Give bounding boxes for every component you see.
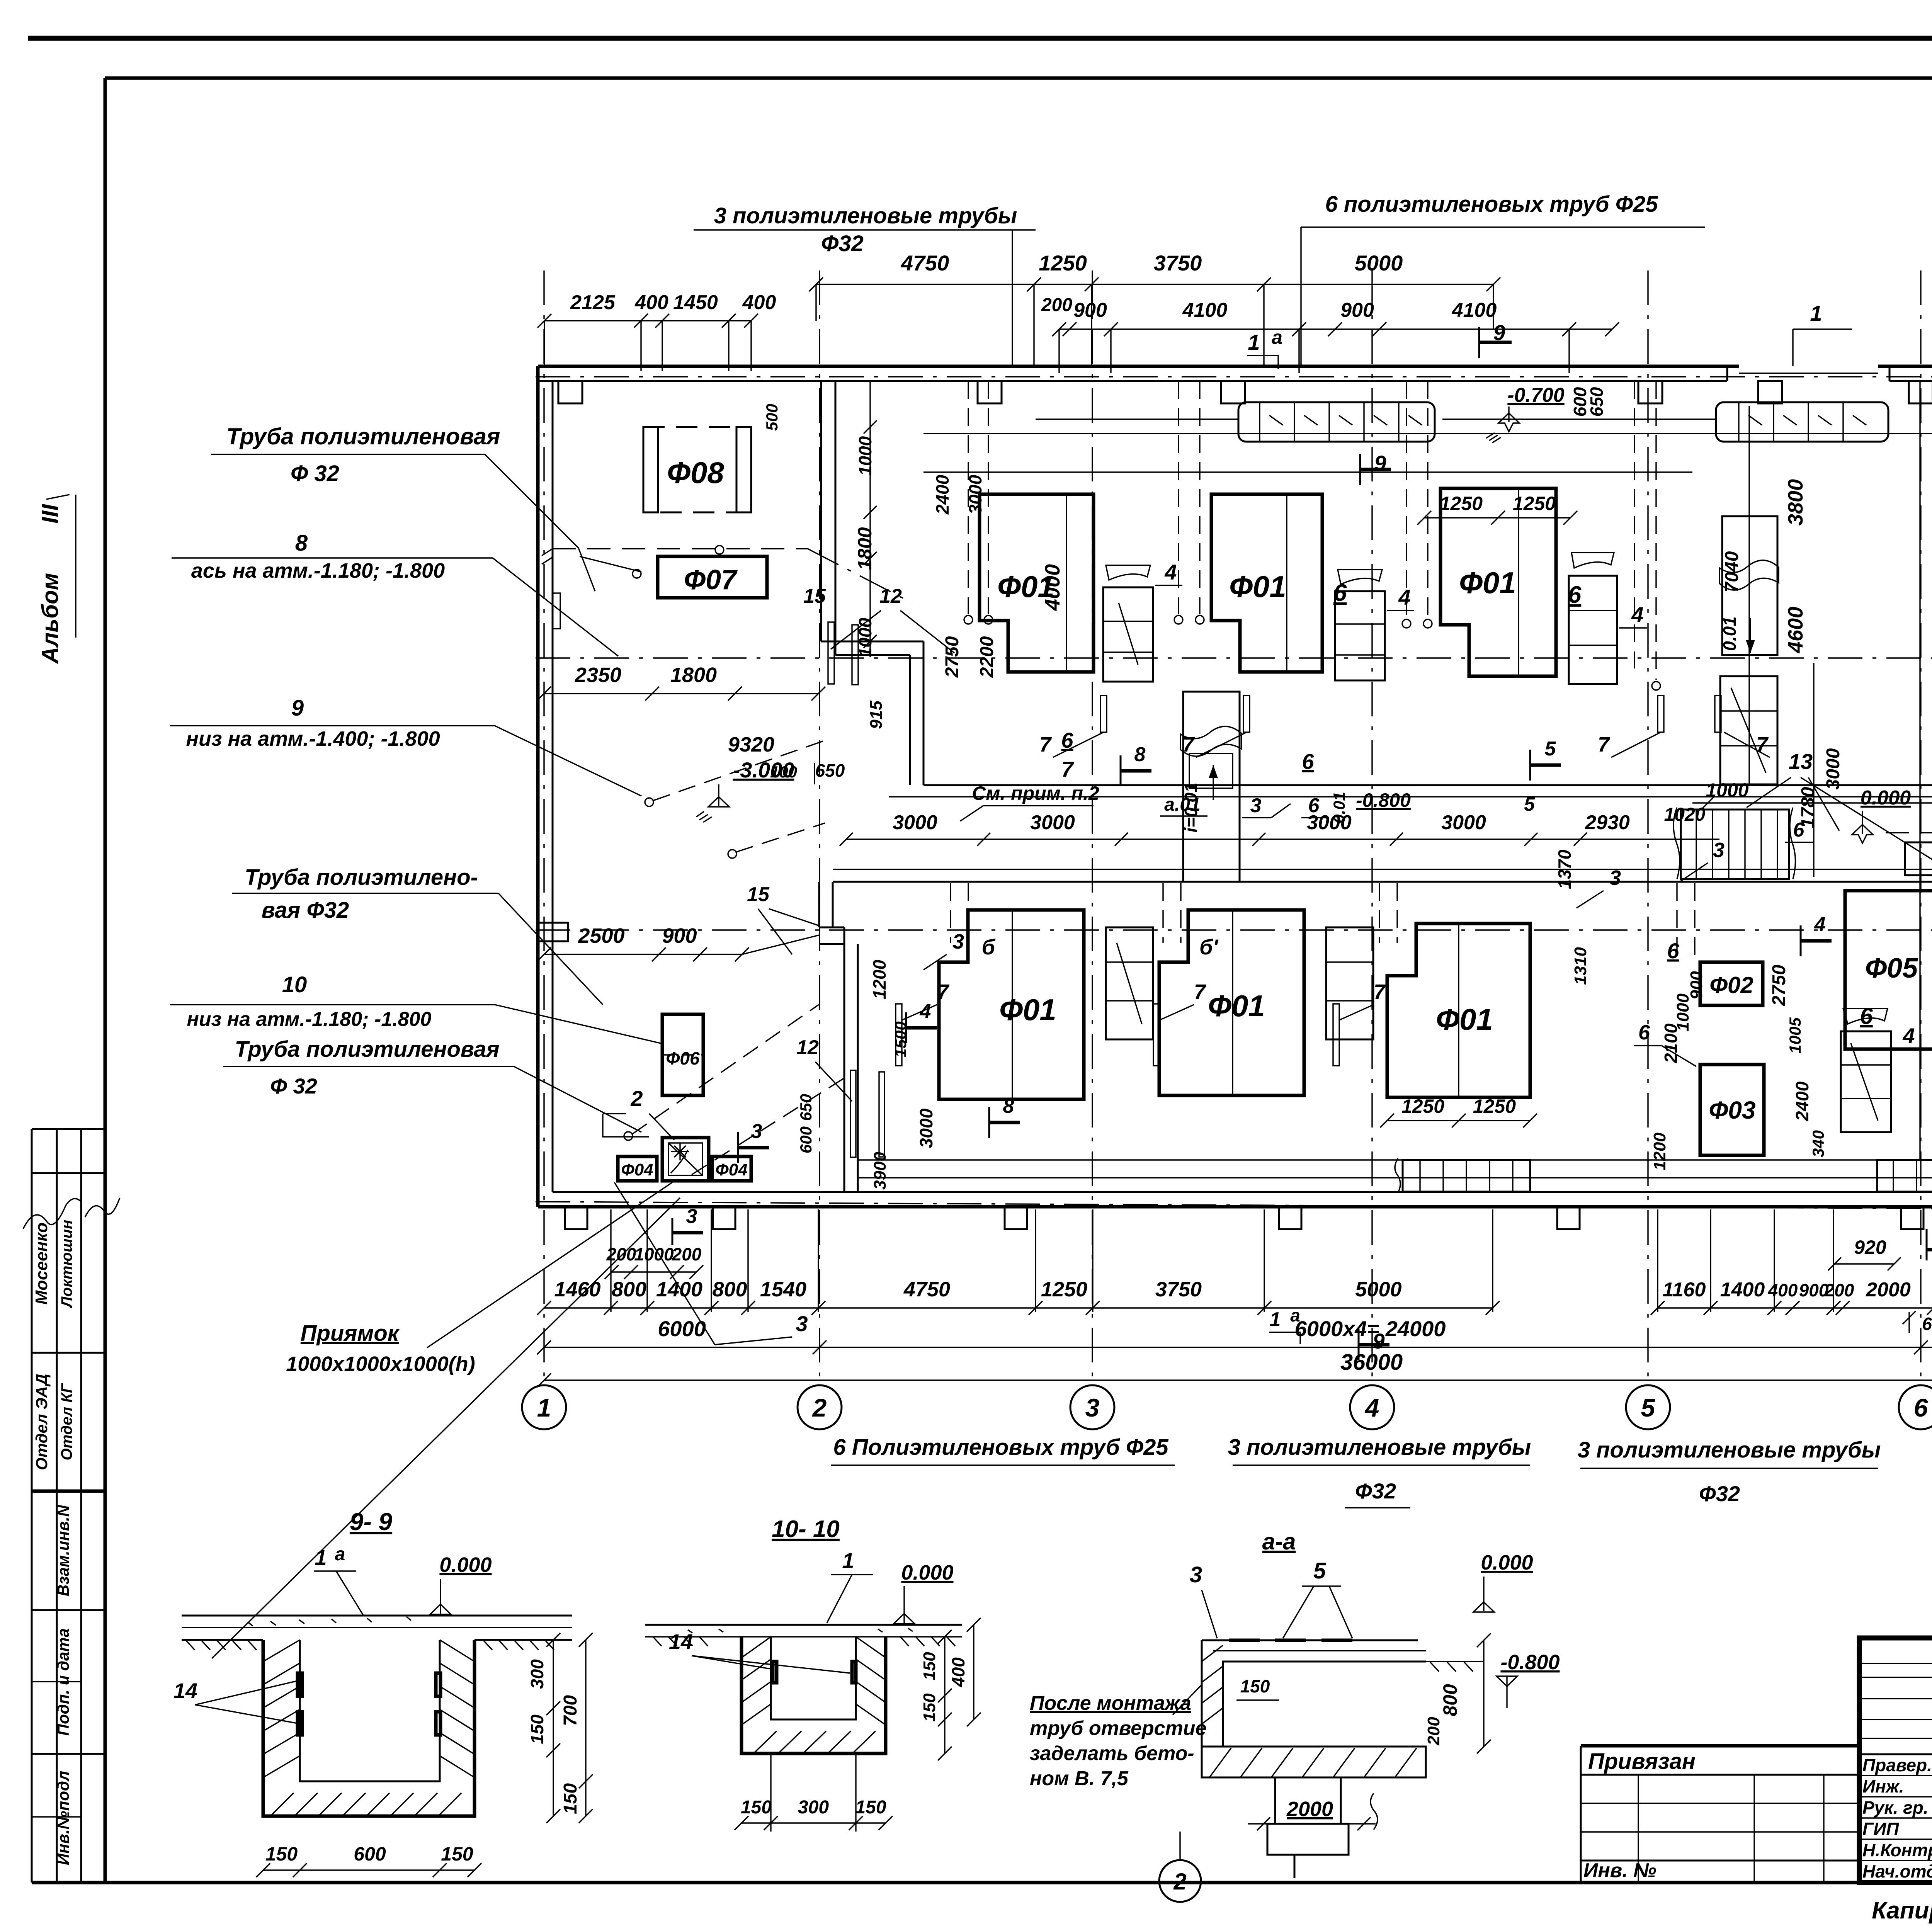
svg-text:2400: 2400 bbox=[1792, 1081, 1812, 1121]
svg-text:2: 2 bbox=[812, 1393, 827, 1422]
horizontal axis В bbox=[536, 657, 1932, 658]
stairs F bbox=[1326, 927, 1373, 1039]
svg-text:600: 600 bbox=[797, 1126, 815, 1153]
svg-text:1250: 1250 bbox=[1473, 1095, 1516, 1117]
interior wall L2 lower vertical bbox=[844, 927, 845, 1192]
svg-text:800: 800 bbox=[712, 1278, 747, 1301]
svg-text:2350: 2350 bbox=[575, 663, 621, 687]
central canal bbox=[923, 784, 1932, 786]
svg-text:Ф32: Ф32 bbox=[1699, 1481, 1740, 1506]
top dim row 2 right bbox=[1059, 328, 1612, 330]
section a-a body bbox=[1202, 1639, 1418, 1641]
svg-text:3 полиэтиленовые трубы: 3 полиэтиленовые трубы bbox=[714, 203, 1017, 228]
svg-text:Ф01: Ф01 bbox=[1459, 566, 1516, 600]
svg-text:900: 900 bbox=[662, 924, 697, 947]
svg-text:6а: 6а bbox=[1922, 1314, 1932, 1334]
svg-text:14: 14 bbox=[669, 1629, 693, 1654]
svg-text:0.01: 0.01 bbox=[1719, 616, 1740, 651]
svg-text:3: 3 bbox=[1190, 1562, 1202, 1587]
svg-text:3 полиэтиленовые трубы: 3 полиэтиленовые трубы bbox=[1578, 1437, 1881, 1463]
svg-text:8: 8 bbox=[295, 531, 308, 556]
svg-text:8: 8 bbox=[1134, 743, 1146, 766]
svg-text:340: 340 bbox=[1809, 1130, 1827, 1157]
svg-text:См. прим. п.2: См. прим. п.2 bbox=[972, 782, 1099, 804]
svg-text:4: 4 bbox=[1164, 560, 1177, 584]
svg-text:Приямок: Приямок bbox=[301, 1321, 400, 1346]
svg-text:150: 150 bbox=[855, 1797, 886, 1818]
svg-text:1780: 1780 bbox=[1798, 787, 1818, 828]
svg-text:б: б bbox=[982, 935, 996, 959]
svg-text:2930: 2930 bbox=[1585, 811, 1630, 834]
svg-text:6: 6 bbox=[1302, 749, 1314, 774]
svg-text:900: 900 bbox=[1073, 299, 1107, 321]
inner frame top bbox=[105, 77, 1932, 80]
svg-text:Мосеенко: Мосеенко bbox=[32, 1223, 51, 1305]
markers 4 left bbox=[905, 1012, 907, 1043]
svg-text:3750: 3750 bbox=[1154, 251, 1202, 275]
dashed pipes upper right bbox=[1634, 381, 1635, 668]
svg-text:4: 4 bbox=[1631, 602, 1643, 627]
svg-text:3000: 3000 bbox=[1030, 811, 1075, 834]
svg-text:1: 1 bbox=[842, 1548, 854, 1573]
svg-text:Ф 32: Ф 32 bbox=[270, 1074, 317, 1098]
svg-text:1: 1 bbox=[1810, 301, 1822, 325]
svg-text:4: 4 bbox=[1398, 585, 1410, 609]
svg-text:1: 1 bbox=[315, 1545, 327, 1570]
ramp mid i=0.01 bbox=[1183, 692, 1240, 882]
stairs E bbox=[1106, 927, 1153, 1039]
dim 2500 900 bbox=[544, 954, 742, 955]
svg-text:1450: 1450 bbox=[673, 291, 718, 314]
svg-text:4750: 4750 bbox=[901, 251, 949, 275]
foundation Ф03 bbox=[1700, 1065, 1764, 1155]
svg-text:б': б' bbox=[1199, 935, 1219, 959]
svg-text:1540: 1540 bbox=[760, 1278, 806, 1301]
svg-text:8: 8 bbox=[1003, 1095, 1014, 1117]
svg-text:650: 650 bbox=[1587, 387, 1607, 417]
bottom dim row A right bbox=[1658, 1307, 1932, 1308]
svg-text:3: 3 bbox=[686, 1205, 697, 1228]
foundation Ф02 bbox=[1700, 962, 1763, 1005]
svg-text:1160: 1160 bbox=[1663, 1279, 1706, 1301]
svg-text:300: 300 bbox=[798, 1797, 829, 1818]
svg-text:0.000: 0.000 bbox=[1481, 1551, 1533, 1574]
svg-text:4000: 4000 bbox=[1041, 564, 1064, 611]
svg-text:6 полиэтиленовых труб Ф25: 6 полиэтиленовых труб Ф25 bbox=[1325, 192, 1658, 217]
10-10 right vdims bbox=[944, 1637, 945, 1753]
svg-text:700: 700 bbox=[560, 1695, 581, 1726]
svg-text:36000: 36000 bbox=[1340, 1350, 1403, 1375]
svg-text:1020: 1020 bbox=[1664, 804, 1706, 825]
svg-text:400: 400 bbox=[1768, 1280, 1798, 1300]
svg-text:5000: 5000 bbox=[1355, 251, 1403, 275]
svg-text:200: 200 bbox=[1824, 1280, 1854, 1300]
foundation Ф01 bottom-2 bbox=[1159, 910, 1304, 1095]
svg-text:3: 3 bbox=[1250, 794, 1262, 817]
svg-text:После монтажа: После монтажа bbox=[1030, 1692, 1191, 1714]
sheet outer border top bbox=[28, 36, 1932, 41]
wall pilasters left bbox=[553, 593, 560, 629]
interior wall L2 jog bbox=[819, 927, 844, 929]
diagonal to section 9-9 bbox=[212, 1198, 680, 1658]
svg-text:1: 1 bbox=[537, 1393, 551, 1422]
svg-text:6000: 6000 bbox=[658, 1316, 706, 1341]
marker 3 pit bbox=[672, 1218, 673, 1245]
svg-text:9: 9 bbox=[291, 696, 304, 721]
svg-text:200: 200 bbox=[1041, 295, 1072, 315]
svg-text:15: 15 bbox=[747, 883, 770, 906]
bars lower bbox=[850, 1070, 856, 1157]
plan outer wall left bbox=[536, 366, 540, 1207]
svg-text:Ф32: Ф32 bbox=[1355, 1479, 1396, 1503]
svg-text:i=0.01: i=0.01 bbox=[1181, 782, 1201, 832]
svg-text:Ф02: Ф02 bbox=[1709, 972, 1753, 998]
foundation Ф08 bbox=[643, 427, 751, 512]
svg-text:150: 150 bbox=[527, 1714, 547, 1744]
dashed pipes upper bbox=[968, 381, 969, 614]
ramp upper right bbox=[1722, 516, 1777, 655]
svg-text:1: 1 bbox=[1248, 330, 1260, 354]
bottom grate 2 bbox=[1877, 1160, 1932, 1192]
svg-text:Труба полиэтиленовая: Труба полиэтиленовая bbox=[235, 1037, 499, 1062]
svg-text:9: 9 bbox=[1372, 1329, 1384, 1353]
svg-text:-0.800: -0.800 bbox=[1356, 789, 1411, 811]
svg-text:3750: 3750 bbox=[1155, 1278, 1202, 1301]
bottom trench bbox=[858, 1159, 1932, 1160]
dim 1250 1250 below block f bbox=[1387, 1120, 1530, 1121]
sidebar signatures bbox=[23, 1199, 81, 1229]
svg-text:6000х4= 24000: 6000х4= 24000 bbox=[1295, 1316, 1446, 1341]
svg-text:Отдел КГ: Отдел КГ bbox=[58, 1383, 75, 1460]
svg-text:500: 500 bbox=[763, 404, 781, 431]
svg-text:Локтюшин: Локтюшин bbox=[58, 1220, 75, 1309]
foundation Ф04 right bbox=[712, 1156, 751, 1181]
svg-text:800: 800 bbox=[612, 1278, 646, 1301]
pit dims bbox=[612, 1271, 696, 1272]
svg-text:10: 10 bbox=[282, 972, 307, 997]
dim 2350 1800 bbox=[544, 693, 818, 694]
foundation Ф06 bbox=[662, 1014, 703, 1095]
svg-text:4: 4 bbox=[1364, 1393, 1379, 1422]
svg-text:1005: 1005 bbox=[1786, 1017, 1804, 1054]
svg-text:200: 200 bbox=[1424, 1717, 1443, 1746]
svg-text:150: 150 bbox=[560, 1783, 581, 1814]
svg-text:Труба полиэтиленовая: Труба полиэтиленовая bbox=[226, 423, 500, 449]
svg-text:7: 7 bbox=[1061, 757, 1074, 781]
svg-text:200: 200 bbox=[672, 1244, 702, 1264]
svg-text:Ф06: Ф06 bbox=[666, 1048, 699, 1068]
svg-text:400: 400 bbox=[634, 291, 668, 314]
svg-text:Ф01: Ф01 bbox=[1436, 1002, 1493, 1036]
svg-text:9: 9 bbox=[1374, 451, 1386, 475]
a-a ground line bbox=[1426, 1661, 1484, 1662]
svg-text:150: 150 bbox=[1240, 1676, 1270, 1696]
plan outer wall bottom bbox=[538, 1205, 1932, 1209]
marker 8 upper bbox=[1120, 755, 1122, 786]
svg-text:2000: 2000 bbox=[1866, 1279, 1911, 1301]
bottom grate 1 bbox=[1403, 1160, 1530, 1192]
svg-text:0.000: 0.000 bbox=[901, 1561, 953, 1584]
foundation Ф01 top-1 bbox=[980, 494, 1094, 672]
svg-text:0.000: 0.000 bbox=[1861, 787, 1911, 809]
svg-text:3000: 3000 bbox=[893, 811, 937, 834]
svg-text:а: а bbox=[335, 1544, 345, 1565]
9-9 right vdims bbox=[553, 1640, 554, 1816]
svg-text:3: 3 bbox=[1713, 838, 1725, 862]
svg-text:а-а: а-а bbox=[1262, 1529, 1296, 1554]
wall pilasters bottom bbox=[565, 1207, 587, 1229]
top dim row 1 bbox=[816, 284, 1493, 285]
svg-text:Капировал: Антипова.: Капировал: Антипова. bbox=[1872, 1897, 1932, 1924]
svg-text:1: 1 bbox=[1270, 1308, 1281, 1331]
svg-text:9320: 9320 bbox=[728, 733, 774, 756]
svg-text:3000: 3000 bbox=[916, 1108, 936, 1148]
wall pilasters top bbox=[558, 381, 582, 403]
svg-text:Ф32: Ф32 bbox=[821, 231, 864, 256]
small box right wall bbox=[1905, 842, 1932, 875]
stairs D below ramp bbox=[1720, 676, 1777, 784]
svg-text:3000: 3000 bbox=[1823, 748, 1844, 789]
markers 5 6 bbox=[1529, 750, 1531, 781]
svg-text:1250: 1250 bbox=[1401, 1095, 1444, 1117]
foundation Ф04 left bbox=[618, 1156, 657, 1181]
svg-text:14: 14 bbox=[173, 1679, 197, 1703]
bottom row A extension lines bbox=[610, 1209, 611, 1312]
svg-text:Отдел ЭАД: Отдел ЭАД bbox=[32, 1374, 51, 1470]
10-10 bottom dims bbox=[742, 1822, 886, 1823]
svg-text:5: 5 bbox=[1524, 793, 1535, 815]
svg-text:низ на атм.-1.400; -1.800: низ на атм.-1.400; -1.800 bbox=[186, 727, 440, 750]
svg-text:2200: 2200 bbox=[977, 636, 997, 678]
bottom dim row C bbox=[544, 1379, 1932, 1381]
svg-text:а: а bbox=[1272, 327, 1282, 348]
svg-text:2100: 2100 bbox=[1661, 1023, 1681, 1063]
svg-text:2750: 2750 bbox=[1769, 964, 1789, 1006]
dashed line in room Ф08 bbox=[553, 548, 808, 549]
svg-text:Ф07: Ф07 bbox=[684, 565, 738, 595]
svg-text:низ на атм.-1.180; -1.800: низ на атм.-1.180; -1.800 bbox=[187, 1008, 432, 1031]
svg-text:2125: 2125 bbox=[570, 291, 616, 314]
svg-text:2000: 2000 bbox=[1286, 1798, 1333, 1821]
svg-text:1000: 1000 bbox=[855, 436, 875, 476]
svg-text:150: 150 bbox=[441, 1843, 473, 1865]
svg-text:6: 6 bbox=[1638, 1021, 1650, 1044]
svg-text:2: 2 bbox=[630, 1086, 643, 1111]
upper trench grate 2 bbox=[1716, 402, 1888, 442]
svg-text:Н.Контр: Н.Контр bbox=[1862, 1840, 1932, 1860]
interior wall L2 vertical upper bbox=[818, 882, 820, 927]
svg-text:5: 5 bbox=[1545, 738, 1556, 760]
svg-text:150: 150 bbox=[741, 1797, 772, 1818]
svg-text:300: 300 bbox=[527, 1659, 547, 1689]
svg-text:650: 650 bbox=[815, 760, 845, 781]
svg-text:Ф03: Ф03 bbox=[1709, 1096, 1755, 1124]
stairs B bbox=[1335, 591, 1385, 680]
foundation Ф05 bbox=[1845, 891, 1932, 1049]
svg-text:4100: 4100 bbox=[1182, 299, 1228, 321]
svg-text:150: 150 bbox=[920, 1693, 939, 1722]
svg-text:-0.700: -0.700 bbox=[1507, 384, 1565, 406]
svg-text:Ф01: Ф01 bbox=[1229, 570, 1286, 604]
svg-text:4: 4 bbox=[920, 1000, 931, 1023]
svg-text:5: 5 bbox=[1313, 1558, 1326, 1583]
svg-text:3: 3 bbox=[1609, 866, 1621, 889]
axis circle 2 bbox=[1159, 1860, 1201, 1902]
svg-text:Инж.: Инж. bbox=[1862, 1776, 1904, 1796]
plan outer wall top bbox=[538, 365, 1739, 368]
svg-text:Правер.: Правер. bbox=[1862, 1755, 1932, 1775]
svg-text:800: 800 bbox=[1439, 1684, 1461, 1716]
sidebar stamp table bbox=[31, 1129, 33, 1883]
svg-text:2: 2 bbox=[1173, 1869, 1186, 1895]
svg-text:4100: 4100 bbox=[1452, 299, 1497, 321]
svg-text:Инв.№подл: Инв.№подл bbox=[54, 1771, 72, 1865]
svg-text:9- 9: 9- 9 bbox=[350, 1508, 393, 1536]
svg-text:3: 3 bbox=[796, 1311, 808, 1336]
svg-text:Ф 32: Ф 32 bbox=[291, 461, 339, 486]
svg-text:5: 5 bbox=[1641, 1393, 1656, 1422]
svg-text:0.000: 0.000 bbox=[439, 1553, 492, 1577]
svg-text:Альбом: Альбом bbox=[37, 573, 63, 664]
inner frame left bbox=[104, 78, 107, 1883]
upper trench grate 1 bbox=[1238, 402, 1435, 442]
svg-text:1200: 1200 bbox=[1650, 1133, 1669, 1170]
svg-text:10- 10: 10- 10 bbox=[772, 1516, 840, 1543]
horizontal axis Б bbox=[536, 929, 1932, 930]
foundation Ф01 top-2 bbox=[1211, 494, 1322, 672]
svg-text:15: 15 bbox=[803, 585, 826, 607]
dim 1250 1250 above block3 bbox=[1424, 517, 1570, 518]
foundation Ф07 bbox=[658, 556, 767, 598]
svg-text:заделать бето-: заделать бето- bbox=[1030, 1742, 1194, 1765]
svg-text:7040: 7040 bbox=[1722, 551, 1742, 592]
svg-text:6: 6 bbox=[1568, 582, 1582, 608]
dashed pipes lower bbox=[950, 883, 951, 943]
horizontal axis А bbox=[536, 1202, 1932, 1211]
room dim chain vertical bbox=[869, 381, 871, 655]
svg-text:1250: 1250 bbox=[1041, 1278, 1087, 1301]
svg-text:6: 6 bbox=[1061, 728, 1073, 752]
svg-text:1370: 1370 bbox=[1554, 849, 1575, 889]
svg-text:Подп. и дата: Подп. и дата bbox=[54, 1628, 72, 1736]
svg-text:3000: 3000 bbox=[1441, 811, 1486, 834]
bars 12 upper bbox=[828, 622, 834, 684]
svg-text:3 полиэтиленовые трубы: 3 полиэтиленовые трубы bbox=[1228, 1435, 1531, 1460]
a-a pillar below bbox=[1275, 1777, 1341, 1824]
foundation Ф01 top-3 bbox=[1440, 488, 1556, 676]
svg-text:Инв. №: Инв. № bbox=[1583, 1859, 1656, 1882]
svg-text:-0.800: -0.800 bbox=[1500, 1651, 1560, 1674]
inner frame bottom bbox=[32, 1881, 1932, 1884]
svg-text:5000: 5000 bbox=[1355, 1278, 1401, 1301]
dashed diagonal pipes left bbox=[653, 741, 823, 801]
bottom dim row A left bbox=[544, 1307, 1493, 1308]
svg-text:1250: 1250 bbox=[1440, 493, 1483, 514]
interior wall L1 vertical bbox=[820, 381, 822, 641]
bottom dim row B bbox=[544, 1347, 1932, 1348]
foundation Ф01 bottom-1 bbox=[939, 910, 1084, 1099]
upper small rows bbox=[1859, 1663, 1932, 1664]
svg-text:3000: 3000 bbox=[1307, 811, 1352, 834]
svg-text:13: 13 bbox=[1789, 749, 1813, 774]
svg-text:1250: 1250 bbox=[1039, 251, 1087, 275]
dashed horizontal right bbox=[1886, 832, 1932, 833]
svg-text:ном В. 7,5: ном В. 7,5 bbox=[1030, 1767, 1129, 1790]
interior wall L1 jog bbox=[821, 641, 923, 643]
markers 7 lower bars bbox=[896, 1004, 902, 1066]
svg-text:4600: 4600 bbox=[1784, 607, 1807, 653]
9-9 bottom dims bbox=[263, 1869, 474, 1871]
svg-text:Ф04: Ф04 bbox=[621, 1160, 653, 1179]
title block main frame bbox=[1859, 1638, 1932, 1883]
top dim row 2 left bbox=[544, 320, 751, 321]
svg-text:Нач.отд: Нач.отд bbox=[1862, 1861, 1932, 1881]
svg-text:3800: 3800 bbox=[1784, 479, 1807, 526]
svg-text:4: 4 bbox=[1902, 1024, 1915, 1048]
svg-text:7: 7 bbox=[1194, 980, 1207, 1003]
section 9-9 body bbox=[182, 1615, 572, 1617]
svg-text:3: 3 bbox=[1085, 1393, 1100, 1422]
section 9-9 pipes marks bbox=[298, 1673, 302, 1696]
svg-text:6 Полиэтиленовых труб Ф25: 6 Полиэтиленовых труб Ф25 bbox=[833, 1435, 1168, 1460]
foundation Ф01 bottom-3 bbox=[1387, 923, 1530, 1097]
svg-text:Труба полиэтилено-: Труба полиэтилено- bbox=[245, 865, 478, 890]
svg-text:7: 7 bbox=[1182, 733, 1195, 756]
svg-text:III: III bbox=[37, 504, 63, 524]
svg-text:вая Ф32: вая Ф32 bbox=[262, 898, 349, 923]
svg-text:150: 150 bbox=[265, 1843, 298, 1865]
markers 7 upper bars bbox=[1100, 696, 1107, 732]
section 10-10 body bbox=[645, 1624, 962, 1626]
svg-text:1400: 1400 bbox=[656, 1278, 702, 1301]
svg-text:Рук. гр.: Рук. гр. bbox=[1862, 1798, 1929, 1818]
svg-text:3: 3 bbox=[952, 930, 964, 953]
svg-text:6: 6 bbox=[1860, 1003, 1873, 1029]
svg-text:1200: 1200 bbox=[869, 959, 889, 999]
marker 3 low bbox=[737, 1132, 739, 1163]
canal grate bbox=[1681, 810, 1789, 879]
row1 top extension lines bbox=[1033, 284, 1034, 366]
svg-text:а: а bbox=[1290, 1305, 1300, 1325]
svg-text:ГИП: ГИП bbox=[1862, 1819, 1899, 1839]
svg-text:1250: 1250 bbox=[1513, 493, 1556, 514]
svg-text:1400: 1400 bbox=[1720, 1279, 1765, 1301]
svg-text:4750: 4750 bbox=[903, 1278, 950, 1301]
svg-text:2750: 2750 bbox=[942, 636, 963, 678]
svg-text:Привязан: Привязан bbox=[1588, 1749, 1696, 1774]
svg-text:2400: 2400 bbox=[932, 474, 952, 515]
svg-text:3: 3 bbox=[751, 1120, 762, 1143]
svg-text:6: 6 bbox=[1914, 1393, 1929, 1422]
svg-text:4: 4 bbox=[1814, 913, 1826, 936]
svg-text:1800: 1800 bbox=[670, 663, 717, 687]
axis bubbles bottom 1-7 bbox=[522, 1385, 566, 1429]
pit приямок bbox=[662, 1138, 709, 1181]
svg-text:ась на атм.-1.180; -1.800: ась на атм.-1.180; -1.800 bbox=[191, 559, 445, 582]
svg-text:Ф04: Ф04 bbox=[715, 1160, 747, 1179]
svg-text:1800: 1800 bbox=[854, 527, 876, 570]
stairs A bbox=[1103, 587, 1153, 682]
svg-text:Взам.инв.N: Взам.инв.N bbox=[54, 1504, 72, 1596]
svg-text:труб отверстие: труб отверстие bbox=[1030, 1717, 1207, 1740]
привязан table bbox=[1581, 1744, 1859, 1748]
horizontal axis Г bbox=[536, 376, 1932, 377]
stairs C bbox=[1569, 576, 1617, 684]
svg-text:900: 900 bbox=[1340, 299, 1374, 321]
svg-text:Ф08: Ф08 bbox=[667, 456, 724, 490]
svg-text:920: 920 bbox=[1854, 1236, 1886, 1258]
svg-text:Ф05: Ф05 bbox=[1865, 953, 1918, 984]
